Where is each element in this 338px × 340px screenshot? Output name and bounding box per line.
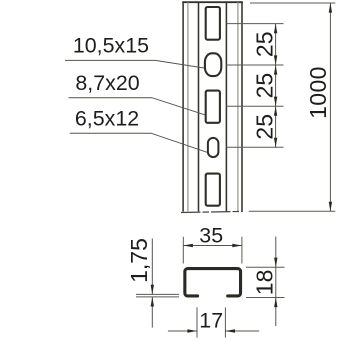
arrow up 1000 xyxy=(329,3,332,13)
svg-text:1000: 1000 xyxy=(305,66,331,119)
dimension line 18 xyxy=(275,237,277,326)
arrow down at 147.3 xyxy=(274,138,277,148)
dimension line 17 right segment xyxy=(225,330,259,332)
arrow down to 267.2 xyxy=(274,258,277,268)
slot hole 8,7x20 middle xyxy=(206,91,220,123)
slot hole 8,7x20 bottom xyxy=(206,174,220,206)
svg-text:25: 25 xyxy=(251,73,277,99)
dimension line 25 chain xyxy=(275,24,277,148)
svg-text:6,5x12: 6,5x12 xyxy=(75,106,139,130)
svg-text:8,7x20: 8,7x20 xyxy=(75,71,139,95)
svg-text:10,5x15: 10,5x15 xyxy=(73,34,149,58)
leader line 6,5x12 xyxy=(70,133,207,152)
extension line 1000 top xyxy=(250,2,335,4)
arrow right 35 xyxy=(232,244,242,247)
extension line 35 left xyxy=(182,237,184,264)
svg-text:35: 35 xyxy=(199,224,223,248)
extension line hole 3 center xyxy=(227,105,284,107)
arrow up at 23.6 xyxy=(274,24,277,34)
extension line 17 left xyxy=(196,307,198,337)
rail bottom break line xyxy=(181,211,243,212)
dimension line 1,75 upper xyxy=(151,239,153,295)
extension line hole 2 center xyxy=(227,64,284,66)
svg-text:25: 25 xyxy=(251,114,277,140)
extension line 35 right xyxy=(241,237,243,264)
arrow right to 197 xyxy=(187,329,197,332)
arrow down to 294.4 xyxy=(151,285,154,295)
rail left fold line xyxy=(187,2,189,211)
arrow up at 106.2 xyxy=(274,106,277,116)
leader line 10,5x15 xyxy=(65,60,204,68)
dimension line 17 left segment xyxy=(168,330,197,332)
arrow up to 297.5 xyxy=(274,298,277,308)
oval hole 6,5x12 xyxy=(208,138,219,157)
arrow left to 225.4 xyxy=(225,329,235,332)
extension line 18 top xyxy=(246,266,285,268)
svg-text:18: 18 xyxy=(251,270,277,296)
svg-text:25: 25 xyxy=(251,32,277,58)
arrow up to 296.9 xyxy=(151,297,154,307)
rail right fold line xyxy=(237,2,239,211)
arrow down at 65 xyxy=(274,55,277,65)
dimension line 1000 xyxy=(329,3,331,211)
leader line 8,7x20 xyxy=(68,98,204,115)
cross-section C-profile xyxy=(185,269,241,296)
svg-text:1,75: 1,75 xyxy=(126,238,152,283)
extension line 1000 bottom xyxy=(249,210,336,212)
slot hole 8,7x20 top xyxy=(206,7,220,40)
svg-text:17: 17 xyxy=(199,309,223,333)
rail top edge xyxy=(182,1,243,3)
arrow left 35 xyxy=(183,244,193,247)
rail web left edge xyxy=(198,2,200,211)
extension line hole 4 center xyxy=(227,146,284,148)
oblong hole 10,5x15 xyxy=(205,53,221,76)
arrow down at 106.2 xyxy=(274,97,277,107)
dimension line 1,75 lower xyxy=(151,297,153,328)
arrow down 1000 xyxy=(329,202,332,212)
dimension line 35 xyxy=(183,245,242,247)
thickness lip bottom line xyxy=(136,296,179,298)
extension line 18 bottom xyxy=(246,297,285,299)
rail left outer edge xyxy=(182,1,184,211)
rail right outer edge xyxy=(241,1,243,211)
rail web right edge xyxy=(225,2,227,211)
extension line 17 right xyxy=(224,307,226,337)
thickness lip top line xyxy=(136,293,179,295)
extension line hole 1 center xyxy=(227,23,284,25)
arrow up at 65 xyxy=(274,65,277,75)
